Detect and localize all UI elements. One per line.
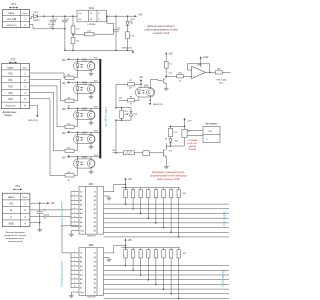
svg-text:Цепь: Цепь <box>8 11 15 15</box>
resistor R6 1K input <box>65 172 74 182</box>
VT1 collector rail <box>166 145 184 148</box>
output wires block 2 <box>104 266 230 299</box>
wire XT2 pin3 to DU3 input <box>30 86 65 127</box>
resistor R12 base <box>124 151 135 155</box>
data chain wire DD1 to DD2 <box>62 226 79 253</box>
svg-text:LM2596: LM2596 <box>88 24 97 26</box>
resistor array 1 supply rail <box>122 187 181 189</box>
+5V arrow resistor array 1 <box>124 178 132 188</box>
+5V wire to DU5 <box>70 156 91 161</box>
svg-text:50в: 50в <box>50 27 53 29</box>
svg-text:+12V: +12V <box>187 121 193 123</box>
note text under XT3 <box>4 232 27 243</box>
transistor VT2 <box>163 73 173 87</box>
svg-text:к СУ порту: к СУ порту <box>223 211 227 228</box>
svg-text:DU5: DU5 <box>82 157 87 159</box>
GND mid rail junctions <box>52 28 65 30</box>
svg-text:+12V: +12V <box>203 57 209 59</box>
svg-text:1N4007: 1N4007 <box>33 20 41 22</box>
svg-text:GND(12V): GND(12V) <box>28 120 38 122</box>
capacitor C1 470uF input <box>48 16 58 29</box>
capacitor C4 10uF <box>37 203 50 223</box>
optocoupler DU2 <box>74 82 96 93</box>
pullup resistor R2x6 1K <box>169 188 172 233</box>
svg-text:схемой с РнК: схемой с РнК <box>153 31 170 35</box>
resistor R2 1K input <box>65 74 74 84</box>
PWM indicator circuit R11 VD4 <box>115 107 137 121</box>
svg-text:6в: 6в <box>44 217 46 219</box>
svg-text:GND(24V): GND(24V) <box>6 25 16 27</box>
bus to XP1 port <box>99 59 101 159</box>
wire R8 to DU6 LED cathode <box>135 97 139 101</box>
svg-text:+5V: +5V <box>138 13 143 16</box>
+5V arrow for DU3 <box>62 107 71 111</box>
DU5 collector to bus with net label Р24 <box>91 155 100 160</box>
resistor R8 1K to DU6 LED <box>128 97 135 106</box>
svg-text:на ХР1 порт: на ХР1 порт <box>104 107 108 127</box>
svg-text:DD1: DD1 <box>89 183 95 186</box>
pullup resistor R3x4 1K <box>154 248 157 286</box>
net label A1 stub <box>119 96 128 100</box>
wire VD1 to DA1 input <box>38 15 77 17</box>
wire mid rail down to GND rail <box>64 29 66 51</box>
+5V arrow VT2 collector <box>165 52 173 61</box>
svg-text:On: On <box>90 13 92 15</box>
DA2 output wire <box>206 72 216 74</box>
svg-text:Р24: Р24 <box>8 98 13 101</box>
svg-text:+5V: +5V <box>9 203 14 206</box>
wire XT3 pin1 +5V <box>30 202 46 204</box>
DD2 Gnd pin wire to ground <box>69 292 79 298</box>
svg-text:к СУ порту: к СУ порту <box>221 270 225 287</box>
wire XT2 pin1 to DU1 input <box>30 73 65 78</box>
DD1 left pin wires <box>71 190 79 227</box>
resistor R3 1K input <box>65 97 74 107</box>
pullup resistor R2x0 1K <box>124 187 127 205</box>
svg-text:R11: R11 <box>124 111 127 113</box>
pullup resistor R3x1 1K <box>131 248 134 271</box>
DU5 emitter to ground <box>89 167 94 173</box>
DU3 emitter to ground <box>89 119 94 125</box>
svg-text:DU1: DU1 <box>82 59 87 61</box>
svg-text:+5V: +5V <box>62 133 67 135</box>
svg-text:Vс: Vс <box>94 253 96 255</box>
pullup resistor R3x6 1K <box>169 248 172 295</box>
optocoupler DU5 <box>74 157 96 168</box>
capacitor C6 base filter <box>134 151 163 156</box>
DU1 collector to bus with net label Р20 <box>91 57 100 62</box>
svg-text:+12..24В: +12..24В <box>7 19 17 21</box>
relay K1 coil <box>182 126 191 146</box>
pullup resistor R2x3 1K <box>147 188 150 219</box>
svg-text:DU3: DU3 <box>82 108 87 110</box>
terminal table XT3 <box>2 193 30 226</box>
wire R6 to LED cathode <box>74 166 78 175</box>
svg-text:GND(12V): GND(12V) <box>6 106 16 108</box>
svg-text:GND(12V): GND(12V) <box>122 47 132 49</box>
wire R15 to DA2 noninverting input <box>183 75 191 77</box>
pullup resistor R3x2 1K <box>139 248 142 276</box>
svg-text:+5V: +5V <box>139 77 144 79</box>
DU4 emitter to ground <box>89 143 94 149</box>
pullup resistor R2x2 1K <box>139 188 142 215</box>
resistor R3 1M <box>71 33 79 51</box>
svg-text:Цепь: Цепь <box>7 65 14 69</box>
terminal table XT1 <box>3 10 30 28</box>
connector XT4 plug <box>203 122 220 143</box>
svg-text:1М: 1М <box>76 41 79 43</box>
svg-text:Вых.: Вых. <box>219 83 224 85</box>
connector XT3 label and symbol <box>13 184 22 190</box>
svg-text:стабилизированного блока: стабилизированного блока <box>144 28 178 32</box>
GND rail end arrow <box>132 50 134 52</box>
+5V wire to DU3 <box>70 108 91 113</box>
wire XT2 pin6 to GND arrow <box>30 105 38 113</box>
DU3 collector to bus with net label Р22 <box>91 106 100 111</box>
+5V arrow for DU4 <box>62 131 71 135</box>
+5V arrow for DU2 <box>62 81 71 85</box>
DU4 collector to bus with net label Р23 <box>91 130 100 135</box>
+5V arrow for DU6 <box>139 77 144 84</box>
resistor R2 100 feedback <box>73 31 114 36</box>
DD1 left bus vertical <box>70 192 72 227</box>
wire R7 right to DU6 LED anode <box>135 84 142 88</box>
svg-text:Выходные данные: Выходные данные <box>60 261 64 287</box>
wire XT3 clock to DD1 <box>30 216 71 218</box>
+5V arrow XT3 <box>46 202 55 205</box>
svg-text:к схемам: к схемам <box>187 140 197 142</box>
wire R7 left down to indicator <box>116 84 128 107</box>
wire XT2 pin4 to DU4 input <box>30 92 65 151</box>
resistor R4 1.2K LED <box>126 26 135 51</box>
resistor array 2 supply rail <box>122 247 181 249</box>
svg-text:Конт.: Конт. <box>22 13 27 15</box>
svg-text:импульсных РнК: импульсных РнК <box>157 177 180 181</box>
LED VD5 relay indicator <box>165 138 178 146</box>
svg-text:DA2: DA2 <box>197 63 202 66</box>
svg-text:GND: GND <box>8 223 14 226</box>
svg-text:Р23: Р23 <box>8 92 13 95</box>
svg-text:+5V: +5V <box>128 179 133 181</box>
wire XT1 pin2 GND to mid rail <box>30 25 65 29</box>
svg-text:заборов цепей: заборов цепей <box>8 240 23 243</box>
svg-text:VD5: VD5 <box>175 141 179 143</box>
svg-text:74НС595: 74НС595 <box>87 297 97 299</box>
svg-text:РнК 0 (Ан): РнК 0 (Ан) <box>216 78 227 81</box>
svg-text:входы: входы <box>5 114 12 117</box>
+5V wire to DU4 <box>70 132 91 137</box>
svg-text:+5V: +5V <box>62 60 67 62</box>
pullup resistor R2x1 1K <box>131 188 134 210</box>
resistor R14 collector load <box>164 61 172 77</box>
capacitor C2 input <box>62 16 70 29</box>
svg-text:GND(12V): GND(12V) <box>153 104 163 106</box>
svg-text:+5V: +5V <box>62 157 67 159</box>
+5V wire to DU2 <box>70 82 91 87</box>
connector XT1 label and symbol <box>9 2 18 9</box>
label analog output port <box>216 78 227 84</box>
svg-text:Dн: Dн <box>80 191 83 193</box>
capacitor C3 output <box>113 16 121 51</box>
pullup resistor R2x5 1K <box>162 188 165 229</box>
VT1 emitter GND <box>165 165 167 166</box>
svg-text:74НС595: 74НС595 <box>87 235 97 237</box>
svg-text:ХТ2: ХТ2 <box>11 58 16 62</box>
DU6 emitter to GND 12V arrow <box>149 96 163 106</box>
DU2 emitter to ground <box>89 93 94 99</box>
wire XT2 pin2 to DU2 input <box>30 79 65 100</box>
svg-text:DU6: DU6 <box>144 86 149 88</box>
wire from XT1 pin1 to diode VD1 <box>30 16 34 18</box>
relay contact wires to XT4 <box>187 131 203 136</box>
svg-text:DU4: DU4 <box>82 132 87 134</box>
optocoupler DU6 <box>135 86 155 98</box>
svg-text:Конт.: Конт. <box>22 67 27 69</box>
svg-text:+5V: +5V <box>62 83 67 85</box>
resistor R1 120 <box>71 16 80 33</box>
svg-text:DA1: DA1 <box>89 6 95 10</box>
svg-text:другим: другим <box>189 146 197 148</box>
svg-text:VD4: VD4 <box>133 114 137 116</box>
feedback wire to output <box>106 15 114 34</box>
wire VT2 to R15 <box>166 75 177 77</box>
terminal table XT2 <box>2 64 30 109</box>
connector XT2 label and symbol <box>9 58 17 64</box>
op-amp DA2 <box>192 63 206 78</box>
svg-text:С: С <box>10 216 12 219</box>
pullup resistor R2x4 1K <box>154 188 157 224</box>
net label A3 stub <box>113 149 124 154</box>
svg-text:ХТ3: ХТ3 <box>15 184 20 188</box>
+5V wire to DU1 <box>70 59 91 64</box>
+5V arrow for DU1 <box>62 58 71 62</box>
resistor R15 to op-amp <box>177 73 184 83</box>
wire indicator to VT1 base net <box>115 120 117 153</box>
svg-text:-Vin: -Vin <box>78 19 81 21</box>
DU1 emitter to ground <box>89 70 94 76</box>
+5V output arrow <box>133 13 143 17</box>
svg-text:Gnd: Gnd <box>80 292 84 294</box>
svg-text:Штекеры: Штекеры <box>206 122 218 126</box>
svg-text:Питание индикации: Питание индикации <box>5 232 25 234</box>
DD1 Gnd pin wire to ground <box>69 231 79 236</box>
DU2 collector to bus with net label Р21 <box>91 80 100 85</box>
svg-text:Конт.: Конт. <box>23 197 28 199</box>
+5V arrow for DU5 <box>62 156 71 160</box>
resistor R7 top of DU6 <box>128 80 135 90</box>
svg-text:+5V: +5V <box>168 54 173 56</box>
feedback wire DA2 <box>187 64 210 73</box>
LED VD2 power indicator <box>126 16 136 26</box>
wire R4 to LED cathode <box>74 118 78 127</box>
svg-text:DD2: DD2 <box>89 244 95 247</box>
wire R3 to LED cathode <box>74 92 78 101</box>
svg-text:+5V: +5V <box>50 203 55 205</box>
svg-text:10: 10 <box>74 286 76 288</box>
DD2 OE pin to ground <box>104 257 112 261</box>
svg-text:Замена двухслойного: Замена двухслойного <box>147 24 175 28</box>
wire R5 to LED cathode <box>74 142 78 151</box>
svg-text:ХТ1: ХТ1 <box>11 2 16 6</box>
wire DA1 output to +5V arrow <box>107 15 133 17</box>
svg-text:клеммной сети (кнопки: клеммной сети (кнопки <box>4 234 27 237</box>
optocoupler DU3 <box>74 108 96 119</box>
red annotation outputs block1 <box>150 170 187 181</box>
relay supply top rail <box>169 126 185 128</box>
DD2 Vcc pin wire to +5V <box>104 245 127 253</box>
pullup resistor R3x3 1K <box>147 248 150 281</box>
DD2 left bus vertical <box>70 253 72 288</box>
resistor R16 output <box>215 69 222 74</box>
wire R2 to LED cathode <box>74 69 78 78</box>
label discrete inputs <box>3 111 17 117</box>
svg-text:6,2К: 6,2К <box>129 88 132 90</box>
svg-text:Dн: Dн <box>80 253 83 255</box>
DD1 OE pin to ground <box>104 196 112 200</box>
DD1 Vcc pin wire to +5V <box>104 184 127 192</box>
IC DD2 74НС595 <box>79 244 104 299</box>
VT2 emitter to GND <box>164 87 169 90</box>
svg-text:Выходные данные: Выходные данные <box>60 201 64 227</box>
svg-text:470мкФ: 470мкФ <box>48 23 55 26</box>
svg-text:Р21: Р21 <box>8 79 13 82</box>
svg-text:Р20: Р20 <box>8 72 13 75</box>
svg-text:10мкФ: 10мкФ <box>43 214 49 217</box>
red annotation relay out <box>187 140 197 151</box>
GND symbol XT3 <box>39 229 41 230</box>
svg-text:формирователей),: формирователей), <box>6 237 24 240</box>
output wire analog out <box>222 71 230 73</box>
pullup resistor R2x7 1K <box>177 188 180 238</box>
wire XT3 pin4 GND <box>30 223 40 229</box>
pullup resistor R3x5 1K <box>162 248 165 290</box>
annotation red text power replace <box>144 24 178 35</box>
svg-text:+5V: +5V <box>128 240 133 242</box>
resistor R4 1K input <box>65 123 74 133</box>
svg-text:Gnd: Gnd <box>80 231 84 233</box>
+5V arrow resistor array 2 <box>124 238 132 247</box>
svg-text:R8: R8 <box>130 97 132 99</box>
regulator DA1 LM2596 module <box>77 6 107 26</box>
svg-text:DU2: DU2 <box>82 82 87 84</box>
svg-text:Р22: Р22 <box>8 85 13 88</box>
diode VD1 1N4007 <box>33 12 41 22</box>
optocoupler DU1 <box>74 59 96 70</box>
optocoupler DU4 <box>74 132 96 143</box>
DU6 collector wire up to VT2 base <box>150 80 163 89</box>
+12V supply arrow DA2 <box>200 56 209 67</box>
resistor R5 1K input <box>65 147 74 157</box>
DD2 left pin wires <box>71 251 79 288</box>
+12V arrow relay supply <box>183 118 192 127</box>
wire XT2 pin5 to DU5 input <box>30 99 65 176</box>
transistor VT1 <box>163 143 173 165</box>
pullup resistor R3x0 1K <box>124 247 127 267</box>
output wires block 1 <box>104 204 230 237</box>
svg-text:блокам: блокам <box>188 149 196 151</box>
svg-text:Цепь: Цепь <box>8 195 15 199</box>
pullup resistor R3x7 1K <box>177 248 180 300</box>
svg-text:+Vin: +Vin <box>78 13 82 15</box>
resistor R13 relay indicator <box>169 126 178 138</box>
svg-text:реле или: реле или <box>187 143 197 145</box>
svg-text:+5V: +5V <box>62 109 67 111</box>
svg-text:Vс: Vс <box>94 191 96 193</box>
GND 12V bottom rail <box>65 47 133 50</box>
IC DD1 74НС595 <box>79 183 104 238</box>
GND 12V arrow under XT2 <box>28 114 38 123</box>
wire XT3 data to DD1 <box>30 209 71 211</box>
